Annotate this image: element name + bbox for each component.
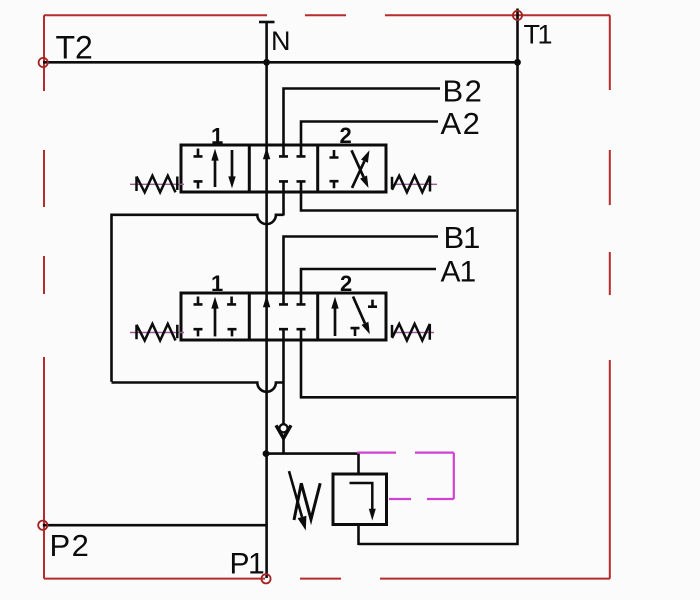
valve V2 position1 blocked port top right: [227, 297, 236, 305]
spring V2 left centerline: [130, 332, 184, 334]
check valve ball and seat: [276, 424, 291, 438]
spring V1 right centerline: [396, 183, 437, 185]
junction dot N-T: [263, 59, 270, 66]
svg-text:1: 1: [211, 271, 223, 296]
spring V2 left: [137, 324, 178, 341]
port P2: [38, 521, 47, 530]
spring V2 right centerline: [396, 332, 434, 334]
valve V1 position1 blocked port bottom: [194, 181, 203, 188]
wire T1 vertical down to relief outlet: [359, 9, 518, 545]
relief adjustment arrow: [289, 471, 306, 530]
wire carryover channel 1 with hop over N: [112, 215, 284, 382]
wire carryover channel 2 with hop over N: [112, 383, 284, 392]
valve V1 body: [181, 145, 386, 192]
wire valve1 tank return: [301, 191, 516, 211]
spring V1 right: [392, 176, 430, 193]
valve V2 body: [181, 293, 386, 340]
svg-text:2: 2: [340, 271, 352, 296]
valve V1 position2 blocked port bottom: [330, 181, 339, 188]
valve V2 position2 blocked port bottom: [351, 328, 360, 336]
wire A1: [301, 269, 436, 294]
wire valve2 tank return: [301, 339, 516, 397]
valve V2 position1 blocked port bottom left: [194, 329, 203, 336]
svg-text:T1: T1: [524, 20, 552, 50]
svg-text:N: N: [271, 26, 291, 56]
valve V1 position2 crossed arrows: [352, 150, 370, 188]
node N cap: [259, 21, 275, 24]
wire valve1 bottom left stub to carryover: [282, 191, 285, 216]
wire A2: [301, 122, 438, 147]
valve V2 position1 blocked port top left: [194, 297, 203, 305]
valve V2 center blocked stubs top: [279, 293, 306, 304]
port T1: [513, 11, 522, 20]
svg-text:B2: B2: [443, 73, 484, 108]
valve V2 position2 diagonal arrow: [353, 297, 370, 335]
valve V1 position2 blocked port top: [330, 150, 339, 158]
wire T2 to T1 tank line: [43, 61, 518, 64]
relief valve RV box: [333, 474, 387, 525]
spring V1 left centerline: [130, 183, 184, 185]
valve V1 position1 down arrow: [231, 150, 234, 178]
wire valve2 bottom left stub through check valve: [282, 339, 285, 454]
wire N vertical / P1 feed line: [265, 22, 268, 578]
wire relief outlet: [357, 525, 360, 546]
valve V1 center up arrowhead on N line: [263, 147, 270, 159]
valve V1 position1 up arrow: [214, 160, 217, 188]
valve V2 position1 blocked port bottom right: [228, 329, 237, 336]
magenta pilot dashed line: [357, 453, 454, 499]
wire B1: [284, 237, 439, 295]
svg-text:B1: B1: [444, 220, 480, 255]
svg-text:T2: T2: [56, 30, 93, 66]
svg-text:A1: A1: [441, 255, 476, 288]
relief valve internal arrow: [350, 483, 373, 509]
valve V1 center blocked stubs top: [279, 145, 306, 156]
spring V1 left: [137, 176, 178, 193]
red dashed enclosure border: [44, 15, 610, 578]
valve V2 center blocked stubs bottom: [279, 329, 306, 340]
wire B2: [284, 89, 441, 147]
svg-text:P2: P2: [50, 528, 91, 563]
spring V2 right: [392, 324, 430, 341]
valve V2 center up arrowhead on N line: [263, 295, 270, 307]
relief adjustable spring: [294, 483, 320, 520]
junction dot T1-T: [514, 59, 521, 66]
valve V1 center blocked stubs bottom: [279, 181, 306, 192]
svg-text:1: 1: [211, 123, 223, 148]
svg-text:P1: P1: [230, 548, 265, 581]
port P1: [261, 574, 270, 583]
port T2: [39, 58, 48, 67]
valve V1 position1 blocked port top: [194, 149, 203, 157]
valve V2 position2 blocked port top right: [368, 300, 377, 307]
valve V2 position2 up arrow: [334, 308, 337, 336]
wire relief inlet: [266, 454, 359, 474]
svg-text:A2: A2: [441, 106, 482, 141]
wire P2: [43, 524, 266, 527]
junction dot P relief: [263, 450, 270, 457]
svg-text:2: 2: [340, 123, 352, 148]
valve V2 position1 up arrow: [214, 308, 217, 337]
